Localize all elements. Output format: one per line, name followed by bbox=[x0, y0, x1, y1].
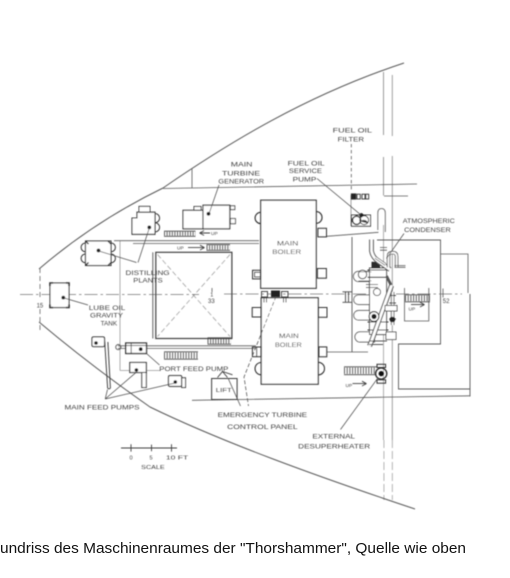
svg-text:UP: UP bbox=[346, 383, 353, 389]
svg-text:GRAVITY: GRAVITY bbox=[90, 312, 123, 319]
svg-text:GENERATOR: GENERATOR bbox=[218, 179, 264, 186]
svg-text:CONTROL PANEL: CONTROL PANEL bbox=[227, 424, 298, 431]
svg-text:52: 52 bbox=[443, 299, 450, 305]
svg-text:DISTILLING: DISTILLING bbox=[126, 270, 170, 277]
svg-text:UP: UP bbox=[211, 231, 218, 237]
svg-text:FUEL OIL: FUEL OIL bbox=[333, 128, 373, 135]
svg-text:5: 5 bbox=[150, 455, 153, 461]
svg-text:MAIN: MAIN bbox=[279, 333, 299, 340]
svg-text:TANK: TANK bbox=[101, 321, 118, 328]
svg-text:UP: UP bbox=[177, 246, 184, 252]
svg-text:MAIN FEED PUMPS: MAIN FEED PUMPS bbox=[65, 405, 140, 412]
svg-text:TURBINE: TURBINE bbox=[222, 170, 260, 177]
svg-text:UP: UP bbox=[409, 307, 416, 313]
svg-text:FILTER: FILTER bbox=[338, 137, 365, 144]
svg-text:PORT FEED PUMP: PORT FEED PUMP bbox=[159, 366, 228, 373]
svg-text:EXTERNAL: EXTERNAL bbox=[312, 434, 355, 441]
svg-text:SERVICE: SERVICE bbox=[289, 168, 322, 175]
svg-text:BOILER: BOILER bbox=[272, 249, 302, 256]
svg-text:undriss des Maschinenraumes de: undriss des Maschinenraumes der "Thorsha… bbox=[0, 540, 466, 557]
svg-text:33: 33 bbox=[208, 299, 215, 305]
svg-text:FUEL OIL: FUEL OIL bbox=[288, 161, 326, 168]
svg-text:1: 1 bbox=[210, 292, 213, 298]
svg-text:10 FT: 10 FT bbox=[166, 455, 189, 461]
svg-text:EMERGENCY TURBINE: EMERGENCY TURBINE bbox=[218, 412, 308, 419]
svg-text:LUBE OIL: LUBE OIL bbox=[89, 305, 126, 312]
svg-text:MAIN: MAIN bbox=[231, 162, 253, 169]
svg-text:ATMOSPHERIC: ATMOSPHERIC bbox=[403, 218, 456, 225]
svg-text:SCALE: SCALE bbox=[141, 465, 165, 471]
svg-text:MAIN: MAIN bbox=[277, 240, 299, 247]
svg-text:PUMP: PUMP bbox=[293, 176, 317, 183]
svg-text:BOILER: BOILER bbox=[275, 342, 303, 349]
svg-text:PLANTS: PLANTS bbox=[133, 278, 162, 285]
svg-text:15: 15 bbox=[37, 304, 44, 310]
svg-text:DESUPERHEATER: DESUPERHEATER bbox=[298, 444, 371, 451]
svg-text:LIFT: LIFT bbox=[216, 388, 233, 394]
svg-text:CONDENSER: CONDENSER bbox=[404, 227, 451, 234]
svg-text:0: 0 bbox=[130, 455, 133, 461]
